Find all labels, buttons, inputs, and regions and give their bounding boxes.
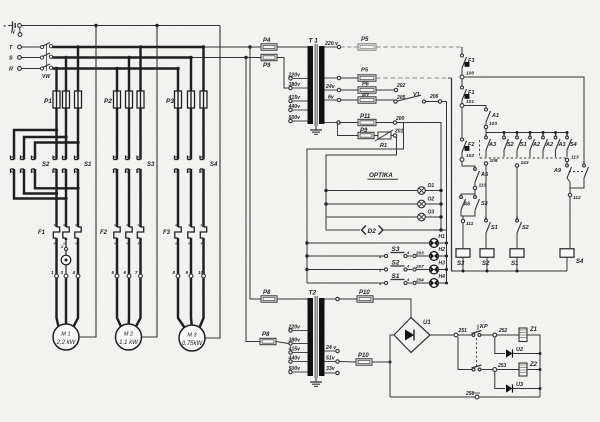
svg-text:A1: A1 [199,155,204,159]
svg-text:A2: A2 [10,170,15,174]
svg-text:A0: A0 [53,223,58,227]
svg-text:A0: A0 [137,223,142,227]
svg-text:A6: A6 [463,202,471,208]
svg-text:S2: S2 [42,162,50,168]
svg-text:A0: A0 [113,223,118,227]
svg-text:A1: A1 [174,155,179,159]
svg-text:4: 4 [484,216,487,220]
svg-text:206: 206 [429,94,439,100]
svg-text:S2: S2 [507,142,514,148]
svg-text:P4: P4 [263,38,271,44]
svg-text:F3: F3 [163,230,171,236]
svg-text:H2: H2 [439,247,446,253]
svg-text:S1: S1 [511,261,519,267]
svg-text:A0: A0 [187,223,192,227]
svg-text:3: 3 [503,133,505,137]
svg-text:P2: P2 [104,98,112,105]
svg-text:1,1 kW: 1,1 kW [119,340,139,346]
svg-text:P10: P10 [358,353,369,359]
svg-text:A2: A2 [174,170,179,174]
svg-text:U2: U2 [516,347,523,353]
svg-text:S3: S3 [457,261,465,267]
svg-text:220v: 220v [288,325,302,331]
svg-text:204: 204 [415,278,424,283]
svg-text:100: 100 [466,71,474,77]
svg-text:S3: S3 [147,162,155,168]
svg-text:253: 253 [497,363,507,369]
svg-text:251: 251 [458,328,468,334]
svg-text:M 1: M 1 [61,332,70,338]
svg-text:202: 202 [396,83,406,89]
svg-text:H1: H1 [439,234,446,240]
svg-text:220v: 220v [288,72,302,78]
svg-text:112: 112 [573,195,581,201]
svg-text:207: 207 [415,264,424,269]
svg-text:111: 111 [466,221,474,227]
svg-text:A1: A1 [74,155,79,159]
svg-text:A5: A5 [480,172,489,178]
svg-text:F1: F1 [38,230,46,236]
svg-text:3: 3 [542,133,544,137]
svg-text:A2: A2 [31,170,36,174]
svg-text:A1: A1 [113,155,118,159]
svg-text:KP: KP [480,324,488,330]
svg-text:0,75kW: 0,75kW [182,341,204,347]
svg-text:A2: A2 [74,170,79,174]
svg-text:H3: H3 [439,261,446,267]
svg-text:415v: 415v [288,95,302,101]
svg-text:VW: VW [42,74,51,80]
svg-text:203: 203 [415,251,424,256]
svg-text:P8: P8 [262,332,270,338]
svg-text:U1: U1 [423,320,431,326]
svg-text:N: N [11,30,15,36]
svg-text:24v: 24v [325,84,336,90]
svg-text:A2: A2 [136,170,141,174]
svg-text:S1: S1 [84,162,92,168]
svg-text:A1: A1 [20,155,25,159]
svg-text:R: R [9,67,13,73]
svg-text:A2: A2 [545,142,553,148]
svg-text:108: 108 [490,158,498,164]
svg-text:143: 143 [521,160,529,166]
svg-text:M 3: M 3 [187,333,197,339]
svg-text:A1: A1 [31,155,36,159]
svg-text:3: 3 [485,133,487,137]
svg-text:A0: A0 [200,223,205,227]
svg-text:P8: P8 [263,290,271,296]
svg-text:S2: S2 [482,261,490,267]
svg-text:A3: A3 [558,142,566,148]
svg-text:A1: A1 [491,113,499,119]
svg-text:S4: S4 [576,259,584,265]
svg-text:S1: S1 [520,142,527,148]
svg-text:A2: A2 [20,170,25,174]
svg-text:P5: P5 [361,37,369,43]
svg-text:A0: A0 [174,223,179,227]
svg-text:380v: 380v [289,82,302,88]
svg-text:4: 4 [72,270,76,275]
svg-text:A2: A2 [199,170,204,174]
svg-text:500v: 500v [289,115,302,121]
svg-text:24 v: 24 v [325,345,337,351]
svg-text:P5: P5 [361,68,369,74]
svg-text:Z1: Z1 [529,327,538,333]
svg-text:P10: P10 [359,290,370,296]
svg-text:S1: S1 [491,225,498,231]
svg-text:A2: A2 [113,170,118,174]
svg-text:113: 113 [571,155,579,161]
svg-text:P3: P3 [166,98,174,105]
svg-text:101: 101 [466,99,474,105]
svg-text:3: 3 [555,133,557,137]
svg-text:A1: A1 [10,155,15,159]
svg-text:A0: A0 [62,223,67,227]
svg-text:S4: S4 [210,162,218,168]
svg-text:A2: A2 [62,170,67,174]
svg-text:A3: A3 [488,142,496,148]
svg-text:P1: P1 [44,98,52,105]
svg-text:2,2 kW: 2,2 kW [56,340,77,346]
svg-text:3: 3 [566,133,568,137]
svg-text:102: 102 [466,153,474,159]
svg-text:F2: F2 [100,230,108,236]
svg-text:110: 110 [479,183,487,189]
svg-text:R1: R1 [380,143,387,149]
svg-text:OPTIKA: OPTIKA [369,172,393,179]
svg-text:T2: T2 [309,290,317,297]
svg-text:A1: A1 [52,155,57,159]
svg-text:A2: A2 [52,170,57,174]
svg-text:415v: 415v [288,347,302,353]
svg-text:3: 3 [529,133,531,137]
svg-text:T 1: T 1 [309,38,319,45]
svg-text:A2: A2 [532,142,540,148]
svg-text:H4: H4 [439,274,446,280]
svg-text:A2: A2 [125,170,130,174]
svg-text:A1: A1 [136,155,141,159]
svg-text:51v: 51v [326,356,336,362]
svg-text:Z2: Z2 [529,362,538,368]
svg-text:A0: A0 [125,223,130,227]
svg-text:A1: A1 [125,155,130,159]
svg-text:440v: 440v [288,356,302,362]
svg-text:S4: S4 [570,142,577,148]
svg-text:A1: A1 [187,155,192,159]
svg-text:33v: 33v [326,366,336,372]
svg-text:250: 250 [465,391,475,397]
svg-text:D2: D2 [368,228,377,235]
svg-text:220 v: 220 v [324,41,339,47]
svg-text:A0: A0 [74,223,79,227]
svg-text:S: S [9,56,13,62]
svg-text:252: 252 [498,328,508,334]
svg-text:380v: 380v [289,338,302,344]
svg-text:500v: 500v [289,366,302,372]
svg-text:O2: O2 [428,197,435,203]
svg-text:S2: S2 [522,225,529,231]
svg-text:A1: A1 [62,155,67,159]
svg-text:P9: P9 [263,63,271,69]
svg-text:M 2: M 2 [124,332,133,338]
svg-text:A9: A9 [553,168,562,174]
svg-text:3: 3 [516,133,518,137]
svg-text:U3: U3 [516,382,523,388]
svg-text:440v: 440v [288,104,302,110]
svg-text:O3: O3 [428,210,435,216]
svg-text:O1: O1 [428,183,435,189]
svg-text:S3: S3 [481,201,488,207]
svg-text:A2: A2 [187,170,192,174]
svg-text:103: 103 [489,121,497,127]
svg-text:4: 4 [515,216,518,220]
